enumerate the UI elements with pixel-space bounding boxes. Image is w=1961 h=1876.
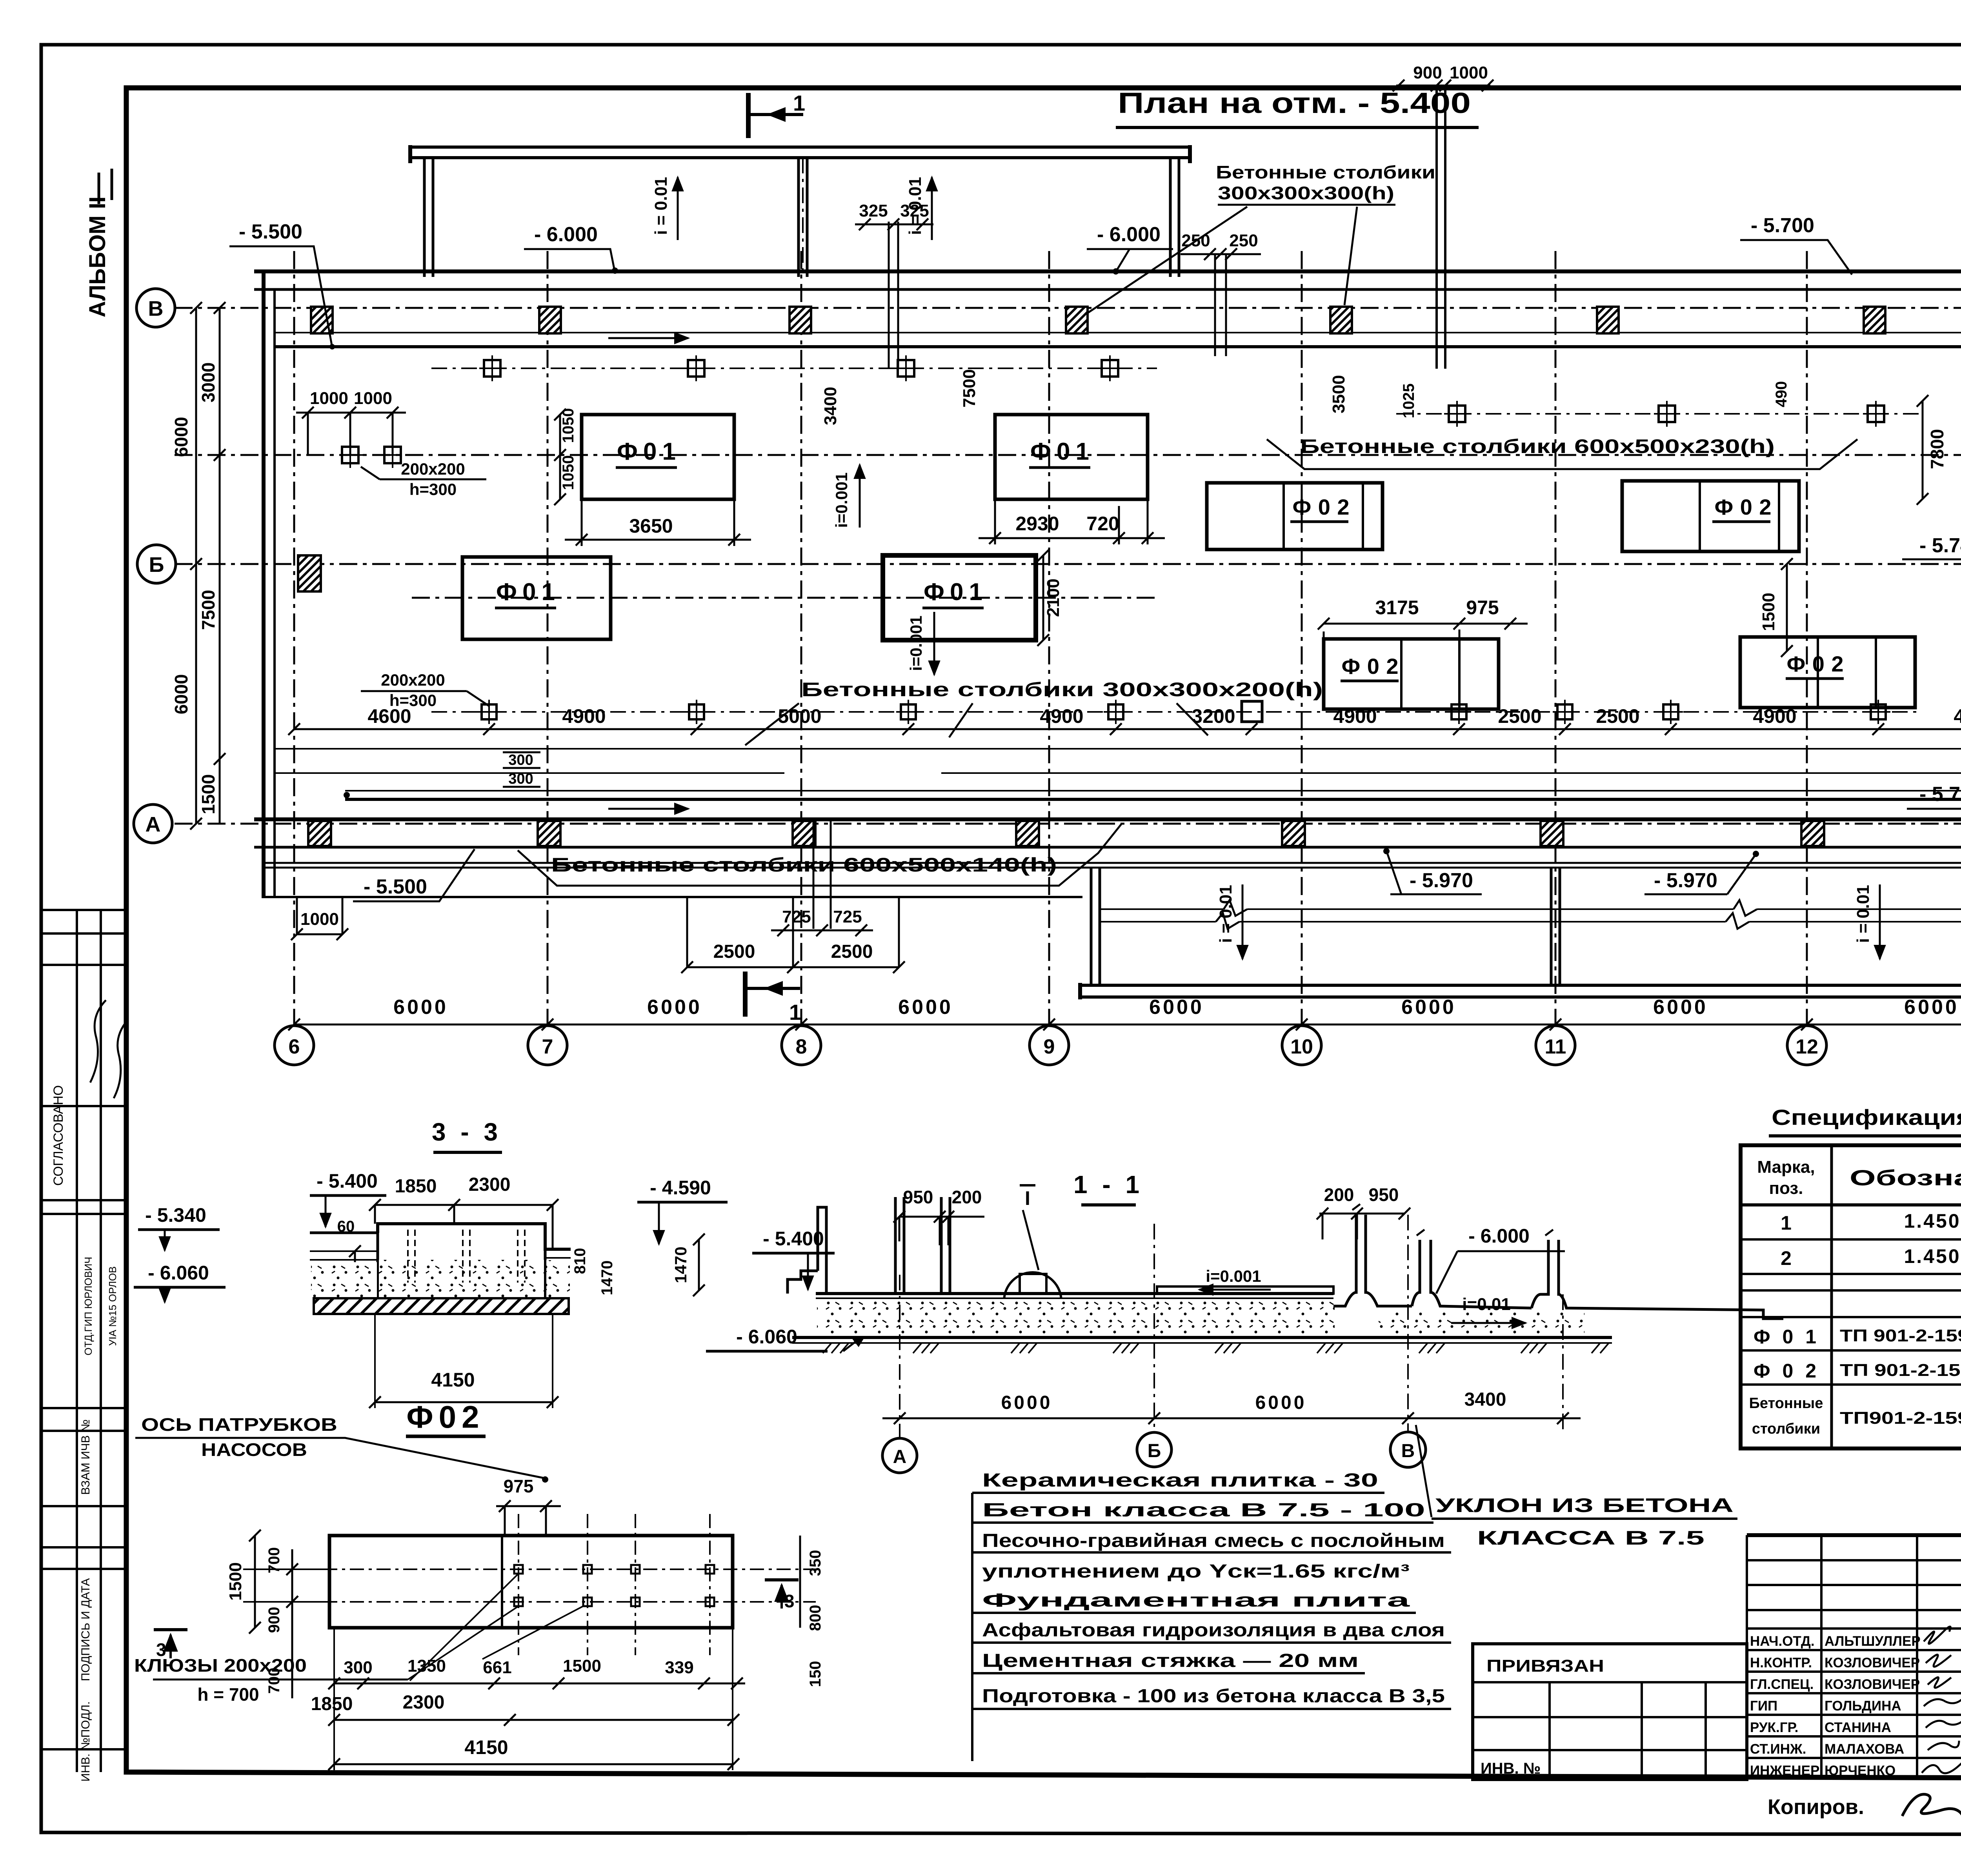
svg-text:УIА №15 ОРЛОВ: УIА №15 ОРЛОВ	[107, 1266, 118, 1346]
axis circle A	[134, 804, 172, 843]
svg-text:3000: 3000	[198, 362, 218, 402]
svg-text:i = 0.01: i = 0.01	[1216, 885, 1235, 943]
svg-text:6000: 6000	[1255, 1392, 1307, 1413]
svg-text:Обозначение: Обозначение	[1850, 1165, 1961, 1190]
column axis circle 9	[1030, 1026, 1069, 1065]
svg-text:ВЗАМ ИЧВ №: ВЗАМ ИЧВ №	[79, 1419, 92, 1495]
svg-text:1.450.3 - 3: 1.450.3 - 3	[1904, 1210, 1961, 1232]
svg-text:Ф01: Ф01	[1030, 438, 1089, 465]
section cut pair 250/250	[1181, 231, 1261, 356]
svg-text:3: 3	[784, 1591, 795, 1611]
slope i=0.01 label right	[906, 177, 932, 240]
svg-text:3175: 3175	[1375, 597, 1419, 619]
svg-text:5000: 5000	[778, 705, 821, 727]
left dim chain 6000/6000	[171, 302, 202, 830]
top wall	[254, 269, 1961, 273]
svg-text:2500: 2500	[1596, 705, 1639, 727]
svg-text:6000: 6000	[393, 996, 448, 1019]
svg-text:975: 975	[1466, 597, 1499, 619]
svg-text:СТ.ИНЖ.: СТ.ИНЖ.	[1750, 1741, 1806, 1757]
svg-text:1850: 1850	[395, 1176, 437, 1197]
apron lines below bottom wall	[264, 863, 1961, 868]
svg-text:ГОЛЬДИНА: ГОЛЬДИНА	[1825, 1698, 1901, 1714]
foundation F02 no.1	[1207, 483, 1383, 550]
svg-text:- 5.700: - 5.700	[1751, 214, 1814, 237]
foundation F01 no.1	[582, 415, 734, 499]
svg-text:6000: 6000	[898, 996, 953, 1019]
1-1 slope i=0.01 right	[1451, 1295, 1526, 1323]
margin equals mark	[99, 169, 112, 204]
1-1 left footing step	[788, 1271, 818, 1294]
3-3 base hatch	[314, 1298, 569, 1314]
svg-text:СОГЛАСОВАНО: СОГЛАСОВАНО	[51, 1085, 66, 1186]
svg-text:300: 300	[508, 752, 533, 768]
column axis circle 11	[1536, 1026, 1575, 1065]
left end wall	[262, 271, 266, 898]
svg-text:i = 0.01: i = 0.01	[651, 177, 671, 235]
level -6.000 label no.1	[524, 223, 618, 274]
F02 plate	[329, 1536, 733, 1628]
row axis lines A B V	[175, 308, 1961, 824]
svg-text:975: 975	[504, 1476, 534, 1496]
svg-text:В: В	[1401, 1441, 1415, 1461]
spec row concrete posts	[1749, 1393, 1961, 1439]
foundation F01 no.3	[995, 415, 1148, 499]
gallery floor lines with breaks	[1100, 900, 1961, 929]
svg-text:900: 900	[266, 1607, 283, 1633]
svg-text:300х300х300(h): 300х300х300(h)	[1218, 183, 1394, 203]
level -6.000 label no.2	[1087, 223, 1173, 275]
1-1 right pits	[1333, 1204, 1783, 1319]
svg-text:Ф01: Ф01	[617, 438, 676, 465]
svg-text:1470: 1470	[598, 1261, 616, 1296]
svg-text:810: 810	[571, 1248, 589, 1274]
svg-text:200: 200	[1324, 1185, 1354, 1205]
slope i=0.01 gallery right	[1854, 884, 1880, 959]
svg-text:200х200: 200х200	[401, 460, 465, 478]
svg-text:- 6.060: - 6.060	[736, 1326, 797, 1348]
F02 section flag 3 right	[765, 1580, 799, 1611]
svg-text:3400: 3400	[1464, 1389, 1506, 1410]
svg-text:АЛЬБОМ II: АЛЬБОМ II	[85, 197, 110, 317]
1-1 dims 200 950 right	[1317, 1185, 1410, 1239]
svg-text:ИНВ. №: ИНВ. №	[1481, 1760, 1541, 1777]
3-3 anchor bolts	[408, 1230, 525, 1283]
slope i=0.001 labels mid-plan	[832, 465, 860, 528]
F02 bottom dims 300 1350 661 1500 339	[328, 1656, 745, 1689]
svg-text:i=0.001: i=0.001	[1206, 1267, 1261, 1285]
gallery bottom beam	[1080, 983, 1961, 999]
spec table header texts	[1757, 1154, 1961, 1198]
svg-text:250: 250	[1181, 231, 1210, 250]
svg-text:ИНВ. №ПОДЛ.: ИНВ. №ПОДЛ.	[79, 1701, 92, 1782]
3-3 dims 810 1470 right	[571, 1248, 616, 1296]
foundation F02 no.3	[1324, 639, 1499, 709]
long dimension row inside plan	[288, 705, 1961, 735]
svg-text:339: 339	[665, 1658, 693, 1677]
svg-text:i = 0.01: i = 0.01	[1854, 885, 1873, 943]
svg-text:Н.КОНТР.: Н.КОНТР.	[1750, 1655, 1812, 1670]
column axis circle 12	[1787, 1026, 1826, 1065]
F02 klyuz label	[134, 1574, 583, 1705]
1-1 level -6.000	[1436, 1225, 1565, 1294]
svg-text:Бетонные столбики 600х500х14: Бетонные столбики 600х500х140(h)	[551, 854, 1057, 876]
column axis lines 6..13	[294, 220, 1961, 1024]
F02 axes	[243, 1514, 816, 1655]
bottom floor edge lines	[345, 790, 1961, 792]
svg-text:Б: Б	[149, 553, 164, 577]
svg-text:Ф01: Ф01	[1754, 1326, 1816, 1348]
interior thin floor lines	[275, 748, 1961, 750]
label concrete posts 300x300x200	[745, 679, 1323, 745]
svg-text:7500: 7500	[960, 369, 979, 408]
bottom wall	[254, 817, 1961, 821]
svg-text:11: 11	[1545, 1035, 1566, 1058]
svg-text:УКЛОН ИЗ БЕТОНА: УКЛОН ИЗ БЕТОНА	[1435, 1494, 1734, 1516]
svg-text:6000: 6000	[1401, 996, 1456, 1019]
svg-text:Марка,: Марка,	[1757, 1157, 1815, 1177]
column axis circle 7	[528, 1026, 567, 1065]
label concrete posts 600x500x230	[1267, 435, 1857, 469]
margin rotated texts	[51, 1085, 118, 1782]
privyazan table	[1473, 1644, 1747, 1780]
gallery posts	[1091, 868, 1961, 986]
slope arrow on ledge	[608, 337, 688, 339]
svg-text:350: 350	[807, 1550, 824, 1576]
1-1 dim 1470 left	[671, 1234, 705, 1296]
label 200x200 h=300 no.2	[361, 671, 489, 710]
1-1 axis circle B	[1137, 1432, 1172, 1467]
svg-text:9: 9	[1044, 1035, 1055, 1058]
svg-text:- 6.060: - 6.060	[148, 1262, 209, 1284]
svg-text:1500: 1500	[1759, 593, 1778, 631]
dims 300/300 small left	[503, 752, 540, 787]
section cut 1 top mark	[748, 91, 805, 138]
1-1 level -6.060	[706, 1326, 866, 1351]
label 1000 1000 top left	[296, 389, 406, 455]
F02 dim 975	[496, 1476, 561, 1536]
F02 axis of pump nozzles	[135, 1414, 548, 1483]
svg-text:700: 700	[266, 1547, 283, 1574]
klyuz squares top row	[431, 355, 1157, 381]
svg-text:4900: 4900	[1333, 705, 1377, 727]
spec row F01	[1754, 1326, 1961, 1348]
column axis circle 8	[782, 1026, 821, 1065]
signature table texts	[1750, 1634, 1921, 1778]
svg-text:800: 800	[807, 1605, 824, 1631]
svg-text:1500: 1500	[226, 1562, 245, 1601]
svg-text:- 6.000: - 6.000	[1468, 1225, 1530, 1247]
svg-text:4900: 4900	[1040, 705, 1083, 727]
kopirov	[1768, 1794, 1961, 1821]
svg-text:150: 150	[807, 1661, 824, 1687]
1-1 axis circle A	[882, 1438, 917, 1473]
axis circle B	[137, 545, 176, 583]
spec row F02	[1754, 1360, 1961, 1382]
svg-text:490: 490	[1773, 381, 1790, 408]
3-3 level -6.060	[134, 1262, 226, 1302]
svg-text:325: 325	[859, 201, 888, 220]
svg-text:2500: 2500	[713, 941, 755, 962]
section cut pair 325/325	[855, 201, 933, 369]
foundation F01 no.2	[462, 557, 611, 639]
svg-text:1: 1	[1781, 1212, 1792, 1234]
svg-text:- 5.970: - 5.970	[1654, 869, 1717, 892]
svg-text:Б: Б	[1148, 1441, 1161, 1461]
F02 dim 4150	[328, 1628, 739, 1770]
svg-text:- 6.000: - 6.000	[534, 223, 598, 246]
dim 2100 right of F01 no.4	[1037, 550, 1063, 646]
svg-text:1470: 1470	[671, 1246, 690, 1283]
dim 1000 bottom left	[291, 898, 348, 940]
svg-text:Ф02: Ф02	[1293, 495, 1350, 519]
left dim chain 3000/7500/1500	[198, 302, 226, 824]
svg-text:А: А	[893, 1447, 907, 1467]
svg-text:КЛАССА В 7.5: КЛАССА В 7.5	[1477, 1527, 1705, 1549]
svg-text:12: 12	[1795, 1035, 1818, 1058]
level -5.700 label	[1740, 214, 1852, 275]
foundation F02 no.4	[1740, 637, 1915, 708]
1-1 small plinth in node	[1020, 1274, 1046, 1294]
svg-text:Бетонные столбики 300х300х20: Бетонные столбики 300х300х200(h)	[801, 679, 1323, 701]
margin signatures	[90, 1000, 128, 1098]
svg-text:7500: 7500	[198, 590, 218, 630]
svg-text:Песочно-гравийная смесь с посл: Песочно-гравийная смесь с послойным	[982, 1530, 1445, 1551]
svg-text:Ф02: Ф02	[1787, 651, 1844, 676]
svg-text:2300: 2300	[403, 1692, 445, 1713]
1-1 ground hatch ticks	[823, 1343, 1609, 1353]
svg-text:- 6.000: - 6.000	[1097, 223, 1161, 246]
svg-text:1: 1	[789, 1000, 801, 1024]
svg-text:3 - 3: 3 - 3	[432, 1118, 502, 1146]
dim 3500 vertical near axis 10 upper	[1329, 375, 1348, 413]
svg-text:6000: 6000	[1149, 996, 1204, 1019]
svg-text:2500: 2500	[1498, 705, 1541, 727]
svg-text:Бетон класса В 7.5 - 1: Бетон класса В 7.5 - 100	[982, 1500, 1425, 1521]
svg-text:i=0.01: i=0.01	[1462, 1295, 1511, 1314]
inner ledge lines	[275, 332, 1961, 333]
1-1 title	[1073, 1170, 1143, 1205]
svg-text:4900: 4900	[1753, 705, 1796, 727]
svg-text:8: 8	[796, 1035, 807, 1058]
F02 title	[406, 1399, 486, 1436]
slope note uklon	[1416, 1425, 1737, 1549]
svg-text:ИНЖЕНЕР: ИНЖЕНЕР	[1750, 1763, 1819, 1778]
svg-text:1500: 1500	[563, 1656, 601, 1676]
svg-text:- 5.700: - 5.700	[1919, 783, 1961, 806]
spec table grid	[1741, 1145, 1961, 1448]
gallery posts	[424, 158, 1179, 277]
svg-text:Подготовка - 100 из бетона кла: Подготовка - 100 из бетона класса В 3,5	[982, 1686, 1445, 1707]
label concrete posts 600x500x140	[518, 824, 1122, 886]
1-1 concrete band	[816, 1297, 1333, 1299]
slope i=0.01 gallery left	[1216, 884, 1242, 959]
F02 bolts	[514, 1565, 714, 1606]
svg-text:1350: 1350	[407, 1656, 446, 1676]
dim 7800 vertical right	[1917, 395, 1947, 505]
level -5.970 label no.1	[1383, 848, 1482, 894]
svg-text:В: В	[148, 297, 164, 320]
svg-text:НАЧ.ОТД.: НАЧ.ОТД.	[1750, 1634, 1815, 1649]
3-3 title	[432, 1118, 502, 1152]
1-1 plinth strips on floor	[1157, 1286, 1333, 1294]
3-3 level -5.340	[138, 1204, 220, 1250]
spec row 2	[1781, 1245, 1961, 1269]
1-1 node callout I label	[1020, 1185, 1039, 1270]
dim 3650 under F01 no.1	[565, 499, 751, 546]
main title	[1116, 87, 1479, 127]
svg-text:i=0.001: i=0.001	[832, 472, 851, 528]
svg-text:- 4.590: - 4.590	[650, 1177, 711, 1199]
svg-text:200х200: 200х200	[381, 671, 445, 689]
svg-text:950: 950	[1369, 1185, 1399, 1205]
label 200x200 h=300 no.1	[361, 460, 486, 499]
klyuz squares bottom row with dash-dot	[431, 700, 1922, 724]
section cut pair 725/725	[771, 819, 873, 936]
svg-text:1000: 1000	[300, 910, 339, 929]
svg-text:Копиров.: Копиров.	[1768, 1795, 1864, 1819]
hatched post left wall axis B	[298, 555, 321, 591]
1-1 pit walls left	[895, 1197, 950, 1294]
svg-text:2: 2	[1781, 1247, 1792, 1269]
slope i=0.01 label left	[651, 177, 678, 240]
3-3 level -4.590	[637, 1177, 728, 1244]
dims 3175 975 above F02 no.3	[1318, 597, 1528, 639]
label betonnye stolbiki 300x300x300 top right	[1086, 162, 1435, 314]
svg-text:ЮРЧЕНКО: ЮРЧЕНКО	[1825, 1763, 1896, 1778]
svg-text:АЛЬТШУЛЛЕР: АЛЬТШУЛЛЕР	[1825, 1634, 1921, 1649]
svg-text:ТП 901-2-159.87- КЖ-16: ТП 901-2-159.87- КЖ-16	[1840, 1361, 1961, 1380]
dims 900 1000 with tall cut line	[1393, 63, 1493, 369]
svg-text:2500: 2500	[831, 941, 873, 962]
svg-text:уплотнением до Υск=1.65 кгс/м³: уплотнением до Υск=1.65 кгс/м³	[982, 1561, 1410, 1582]
column axis circle 10	[1282, 1026, 1321, 1065]
signature table	[1747, 1535, 1961, 1780]
svg-text:Бетонные: Бетонные	[1749, 1395, 1823, 1412]
axis circle V	[136, 289, 175, 327]
svg-text:3500: 3500	[1329, 375, 1348, 413]
svg-text:6000: 6000	[1653, 996, 1708, 1019]
svg-text:h=300: h=300	[409, 480, 457, 499]
svg-text:РУК.ГР.: РУК.ГР.	[1750, 1720, 1798, 1735]
svg-text:- 5.400: - 5.400	[763, 1228, 824, 1250]
svg-text:i=0.001: i=0.001	[907, 615, 925, 671]
signature squiggles	[1922, 1627, 1961, 1773]
svg-text:МАЛАХОВА: МАЛАХОВА	[1825, 1741, 1904, 1757]
1-1 floor line	[816, 1292, 1333, 1295]
3-3 body	[310, 1224, 571, 1298]
svg-text:1: 1	[793, 91, 805, 115]
svg-text:Ф02: Ф02	[1342, 654, 1399, 679]
svg-text:- 5.740: - 5.740	[1919, 534, 1961, 557]
svg-text:ГЛ.СПЕЦ.: ГЛ.СПЕЦ.	[1750, 1677, 1814, 1692]
svg-text:Спецификация элементов распо: Спецификация элементов расположенных на …	[1772, 1105, 1961, 1130]
svg-text:НАСОСОВ: НАСОСОВ	[201, 1439, 307, 1460]
svg-text:Ф02: Ф02	[406, 1399, 484, 1434]
svg-text:ПОДПИСЬ И ДАТА: ПОДПИСЬ И ДАТА	[79, 1578, 92, 1681]
svg-text:- 5.340: - 5.340	[145, 1204, 206, 1226]
hatched concrete posts on bottom wall	[308, 821, 1824, 846]
level -5.500 top label	[229, 220, 335, 349]
svg-text:1050: 1050	[560, 455, 577, 490]
svg-text:ГИП: ГИП	[1750, 1698, 1777, 1714]
spec table heading	[1769, 1105, 1961, 1136]
svg-text:1850: 1850	[311, 1694, 353, 1714]
aux axis lower pump row	[412, 597, 1157, 599]
svg-text:6000: 6000	[171, 674, 191, 714]
dim 1500 vertical near axis 11	[1759, 558, 1793, 657]
svg-text:1000: 1000	[310, 389, 348, 408]
top gallery beam	[410, 145, 1190, 163]
dims 2500 2500 bottom	[681, 898, 905, 973]
svg-text:столбики: столбики	[1752, 1421, 1820, 1437]
svg-text:ТП 901-2-159.87 - КЖ-16: ТП 901-2-159.87 - КЖ-16	[1840, 1326, 1961, 1345]
section cut 1 bottom mark	[745, 972, 801, 1024]
dims 2930 720 under F01 no.3	[979, 499, 1165, 544]
svg-text:7: 7	[542, 1035, 553, 1058]
level -5.970 label no.2	[1644, 851, 1759, 894]
1-1 slope labels i=0.001	[1199, 1267, 1271, 1290]
1-1 base lines	[792, 1336, 1612, 1339]
svg-text:4900: 4900	[562, 705, 606, 727]
foundation F02 no.2	[1622, 481, 1799, 551]
svg-text:Ф01: Ф01	[496, 579, 555, 606]
klyuz squares top row right segment	[1396, 401, 1922, 427]
svg-text:Ф02: Ф02	[1754, 1360, 1816, 1382]
svg-text:300: 300	[508, 771, 533, 787]
svg-text:ТП901-2-159.87- КЖ-16: ТП901-2-159.87- КЖ-16	[1840, 1408, 1961, 1428]
svg-text:4600: 4600	[1954, 705, 1961, 727]
spec row 1	[1781, 1210, 1961, 1234]
floor layers note block	[972, 1470, 1451, 1761]
svg-text:900: 900	[1413, 63, 1442, 82]
svg-text:1.450.3 - 3: 1.450.3 - 3	[1904, 1245, 1961, 1267]
svg-text:1025: 1025	[1400, 384, 1417, 419]
svg-text:Цементная стяжка — 20 мм: Цементная стяжка — 20 мм	[982, 1650, 1359, 1671]
svg-text:2930: 2930	[1015, 513, 1059, 535]
svg-text:6000: 6000	[171, 417, 191, 457]
3-3 dims 1850 2300	[369, 1174, 558, 1249]
svg-text:1000: 1000	[354, 389, 392, 408]
level -5.700 label right low	[1907, 783, 1961, 809]
svg-text:3650: 3650	[629, 515, 673, 537]
1-1 node circle	[1004, 1272, 1061, 1330]
svg-text:КОЗЛОВИЧЕР: КОЗЛОВИЧЕР	[1825, 1677, 1920, 1692]
svg-text:СТАНИНА: СТАНИНА	[1825, 1720, 1891, 1735]
aux axis 1	[175, 454, 1961, 456]
svg-text:4150: 4150	[431, 1369, 475, 1391]
svg-text:Бетонные столбики: Бетонные столбики	[1216, 162, 1435, 182]
svg-text:6: 6	[289, 1035, 300, 1058]
svg-text:2300: 2300	[469, 1174, 511, 1195]
svg-text:Фундаментная плита: Фундаментная плита	[982, 1590, 1410, 1611]
svg-text:325: 325	[900, 201, 929, 220]
svg-text:Керамическая плитка - 30: Керамическая плитка - 30	[982, 1470, 1378, 1491]
3-3 dim 4150	[369, 1314, 558, 1408]
3-3 dim 720	[323, 1245, 361, 1309]
svg-text:10: 10	[1290, 1035, 1313, 1058]
F02 dims 1850 2300	[311, 1692, 739, 1726]
svg-text:3400: 3400	[821, 387, 840, 425]
svg-text:Бетонные столбики 600х500х23: Бетонные столбики 600х500х230(h)	[1300, 435, 1775, 457]
F02 section flag 3 left	[154, 1630, 187, 1660]
svg-text:950: 950	[903, 1187, 933, 1207]
level -5.500 bottom label	[353, 849, 475, 901]
svg-text:ОТД.ГИП ЮРЛОВИЧ: ОТД.ГИП ЮРЛОВИЧ	[82, 1257, 94, 1356]
svg-text:Ф02: Ф02	[1715, 495, 1772, 519]
svg-text:200: 200	[952, 1187, 982, 1207]
svg-text:- 5.500: - 5.500	[239, 220, 302, 243]
